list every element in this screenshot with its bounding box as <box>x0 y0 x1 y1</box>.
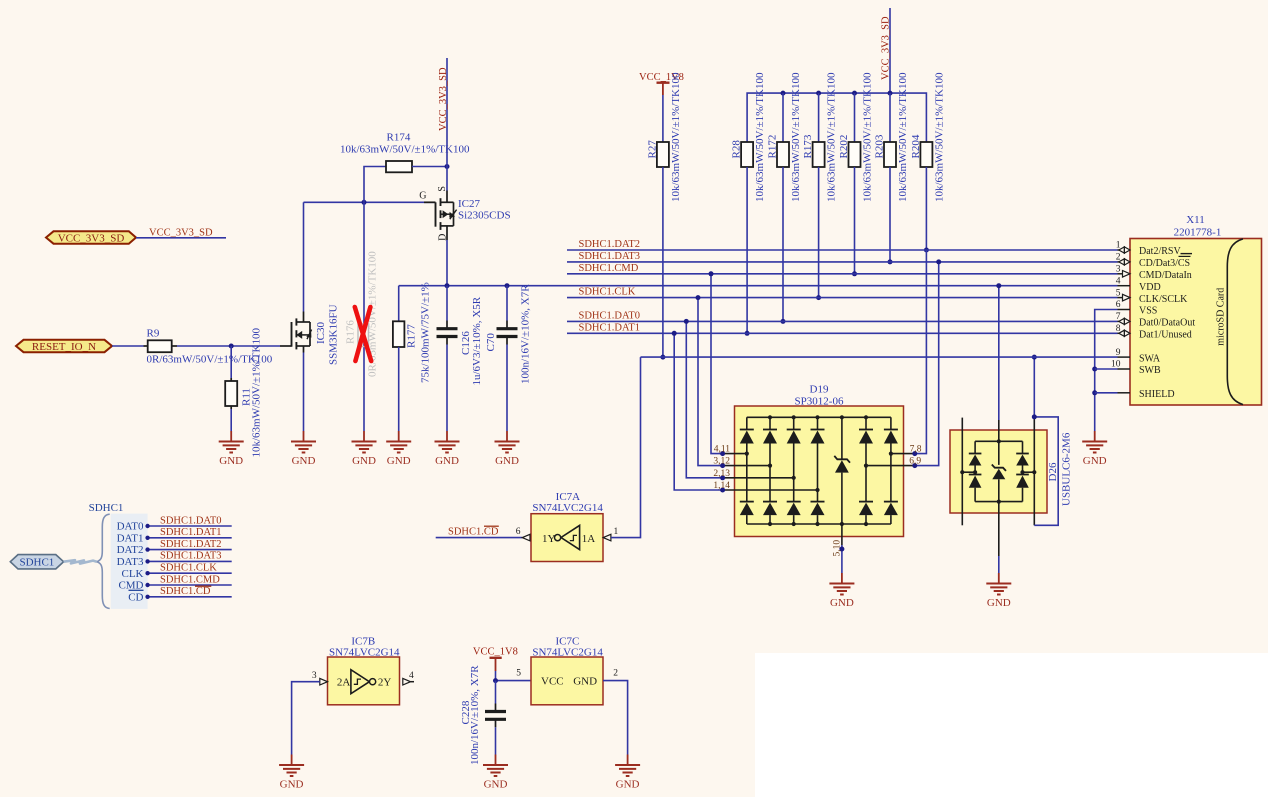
svg-text:R202: R202 <box>838 135 850 159</box>
junction rail/R202 <box>852 91 857 96</box>
wire D26 bypass loop <box>1034 417 1058 525</box>
svg-text:R204: R204 <box>910 134 922 158</box>
X11 pin 4 VDD <box>1116 276 1161 293</box>
svg-text:microSD Card: microSD Card <box>1216 288 1227 346</box>
svg-text:R203: R203 <box>873 134 885 158</box>
svg-text:SDHC1.DAT1: SDHC1.DAT1 <box>160 527 222 538</box>
ESD diode D26 USBULC6-2M6 body <box>950 430 1047 513</box>
svg-text:VDD: VDD <box>1139 282 1161 293</box>
resistor R177 <box>393 282 432 383</box>
svg-text:R27: R27 <box>646 140 658 159</box>
svg-text:2,13: 2,13 <box>713 469 730 479</box>
svg-text:1,14: 1,14 <box>713 481 730 491</box>
X11 pin SHIELD SHIELD <box>1118 389 1175 400</box>
net label SDHC1.DAT1 <box>160 527 222 538</box>
IC7B pin 3 <box>312 671 328 685</box>
svg-text:SDHC1: SDHC1 <box>89 502 124 514</box>
wire R172 top lead <box>782 93 784 142</box>
D19 top rail <box>747 416 891 418</box>
ground under X11 VSS <box>1082 431 1107 467</box>
wire R176 net to ground <box>363 202 365 431</box>
ground under R176 <box>352 431 377 467</box>
D19 lower diode column 6 <box>884 454 898 524</box>
junction SHIELD <box>1092 390 1097 395</box>
net label SDHC1.DAT0 <box>579 311 641 322</box>
svg-text:10k/63mW/50V/±1%/TK100: 10k/63mW/50V/±1%/TK100 <box>897 72 909 202</box>
wire pull-up rail <box>747 93 926 142</box>
ground under IC7C <box>615 755 640 791</box>
port RESET_IO_N <box>16 340 112 353</box>
junction R173/net <box>816 295 821 300</box>
D26 diode pair column <box>960 441 981 501</box>
wire R204 bottom lead <box>925 167 927 250</box>
wire R172 bottom lead <box>782 167 784 321</box>
svg-text:CD: CD <box>128 591 143 603</box>
svg-text:SSM3K16FU: SSM3K16FU <box>328 304 340 365</box>
wire R203 bottom lead <box>889 167 891 262</box>
svg-text:SDHC1.CMD: SDHC1.CMD <box>160 574 220 585</box>
svg-text:SP3012-06: SP3012-06 <box>795 395 844 407</box>
svg-text:Dat2/RSV: Dat2/RSV <box>1139 246 1181 257</box>
D19 bottom rail <box>747 523 891 525</box>
svg-text:100n/16V/±10%, X7R: 100n/16V/±10%, X7R <box>519 284 531 384</box>
svg-text:D26: D26 <box>1047 462 1059 481</box>
svg-text:5,10: 5,10 <box>833 540 843 557</box>
wire R27 to SWA net <box>662 167 664 357</box>
D19 rail junction <box>840 415 844 526</box>
capacitor C228 <box>460 665 506 765</box>
svg-text:SDHC1.CD: SDHC1.CD <box>448 527 499 538</box>
D19 upper diode column 3 <box>787 417 801 478</box>
power port VCC_3V3_SD <box>46 231 136 244</box>
svg-text:VCC_3V3_SD: VCC_3V3_SD <box>58 232 125 244</box>
svg-text:X11: X11 <box>1186 214 1205 226</box>
harness pin DAT0 <box>117 521 144 533</box>
svg-text:R9: R9 <box>147 327 160 339</box>
wire R11 riser <box>230 346 232 381</box>
svg-text:D: D <box>438 234 449 241</box>
svg-text:GND: GND <box>387 455 411 467</box>
net label SDHC1.DAT1 <box>579 322 641 333</box>
D19 pin 2,13 <box>713 469 795 481</box>
ground under R177 <box>386 431 411 467</box>
svg-text:2: 2 <box>613 669 618 679</box>
net label SDHC1.DAT2 <box>579 239 641 250</box>
power net VCC_3V3_SD vertical (left) <box>438 58 449 191</box>
gate power IC7C SN74LVC2G14 <box>531 636 603 705</box>
junction R28/net <box>745 331 750 336</box>
wire VCC_1V8 node <box>496 671 532 681</box>
net label SDHC1.CMD <box>579 263 639 274</box>
svg-text:GND: GND <box>987 597 1011 609</box>
wire IC30 drain riser <box>303 202 305 311</box>
wire VCC_3V3_SD stub <box>136 237 226 239</box>
power symbol VCC_1V8 (R27) <box>639 72 684 95</box>
wire C126 to ground <box>446 337 448 432</box>
D19 rail junction <box>815 415 819 526</box>
svg-text:S: S <box>437 186 448 192</box>
capacitor C70 <box>485 284 532 384</box>
svg-text:5: 5 <box>516 669 521 679</box>
D19 rail junction <box>768 415 772 526</box>
X11 pin 7 Dat0/DataOut <box>1116 312 1196 329</box>
svg-text:RESET_IO_N: RESET_IO_N <box>32 341 96 353</box>
net label SDHC1.CLK <box>579 287 636 298</box>
net label SDHC1.CD <box>160 586 211 597</box>
X11 pin 10 SWB <box>1111 360 1161 377</box>
svg-text:10k/63mW/50V/±1%/TK100: 10k/63mW/50V/±1%/TK100 <box>754 72 766 202</box>
wire IC27 drain to VDD net <box>446 240 448 286</box>
power net VCC_3V3_SD vertical (top right) <box>881 8 892 93</box>
net label SDHC1.CD overline <box>195 585 211 587</box>
D19 lower diode column 2 <box>763 466 777 524</box>
net label SDHC1.DAT2 <box>160 539 222 550</box>
transistor IC30 SSM3K16FU <box>280 304 340 365</box>
svg-text:SDHC1.CLK: SDHC1.CLK <box>579 287 636 298</box>
junction R174/VCC rail <box>445 164 450 169</box>
D19 lower diode column 3 <box>787 478 801 524</box>
ground under D26 <box>986 573 1011 609</box>
svg-text:GND: GND <box>495 455 519 467</box>
X11 pin1 RSV underscore mark <box>1181 253 1193 255</box>
svg-text:SDHC1.DAT3: SDHC1.DAT3 <box>579 251 641 262</box>
ground under IC30 <box>291 431 316 467</box>
svg-text:CLK/SCLK: CLK/SCLK <box>1139 294 1188 305</box>
D19 lower diode column 5 <box>859 466 873 524</box>
svg-text:VCC_3V3_SD: VCC_3V3_SD <box>881 16 892 80</box>
resistor R203 <box>873 72 909 202</box>
svg-text:USBULC6-2M6: USBULC6-2M6 <box>1060 432 1072 506</box>
net label SDHC1.CLK <box>160 563 217 574</box>
svg-text:GND: GND <box>484 779 508 791</box>
harness tag SDHC1 <box>10 555 63 569</box>
wire R28 bottom lead <box>746 167 748 333</box>
svg-text:5: 5 <box>1116 288 1121 298</box>
svg-text:GND: GND <box>616 779 640 791</box>
wire VCC_1V8 to R27 <box>662 95 664 142</box>
wire net SDHC1.CMD <box>567 273 1118 275</box>
wire C228 top lead <box>495 681 497 712</box>
harness bus squiggle <box>64 560 97 563</box>
IC7B pin 4 <box>403 671 414 685</box>
D26 top rail <box>975 420 1022 443</box>
svg-text:R177: R177 <box>406 324 418 348</box>
svg-text:GND: GND <box>830 597 854 609</box>
junction R202/net <box>852 271 857 276</box>
svg-text:DAT1: DAT1 <box>117 532 144 544</box>
junction VCC_1V8/C228 <box>493 678 498 683</box>
D19 upper diode column 4 <box>811 417 825 490</box>
IC7C pin 5 <box>516 669 521 679</box>
ground under R11 <box>219 431 244 467</box>
resistor R202 <box>838 72 874 202</box>
svg-text:SWB: SWB <box>1139 365 1161 376</box>
D19 rail junction <box>864 415 868 526</box>
svg-text:SDHC1.CD: SDHC1.CD <box>160 586 211 597</box>
D19 pin 3,12 <box>713 457 772 469</box>
svg-text:SWA: SWA <box>1139 353 1161 364</box>
wire R202 top lead <box>854 93 856 142</box>
D26 right pin line <box>1033 417 1035 525</box>
svg-text:CLK: CLK <box>122 568 144 580</box>
svg-text:1: 1 <box>1116 241 1121 251</box>
svg-text:SHIELD: SHIELD <box>1139 389 1175 400</box>
svg-text:DAT0: DAT0 <box>117 521 144 533</box>
junction rail/R173 <box>816 91 821 96</box>
net label SDHC1.DAT3 <box>160 551 222 562</box>
junction R172/net <box>781 319 786 324</box>
svg-text:Dat1/Unused: Dat1/Unused <box>1139 330 1192 341</box>
resistor R11 <box>225 328 262 458</box>
wire DAT0 riser to D19 pin 2,13 <box>686 321 722 477</box>
svg-text:SDHC1.DAT2: SDHC1.DAT2 <box>579 239 641 250</box>
wire SDHC1.CD <box>145 595 231 599</box>
D19 upper diode column 2 <box>763 417 777 465</box>
resistor R174 <box>340 132 470 173</box>
wire VDD to D26 top <box>998 286 1000 420</box>
wire SDHC1.DAT0 <box>145 524 231 528</box>
harness pin CMD <box>118 580 143 592</box>
svg-text:3: 3 <box>312 671 317 681</box>
svg-text:DAT3: DAT3 <box>117 556 144 568</box>
svg-text:9: 9 <box>1116 348 1121 358</box>
svg-text:CMD/DataIn: CMD/DataIn <box>1139 270 1192 281</box>
svg-text:2201778-1: 2201778-1 <box>1174 226 1222 238</box>
D19 upper diode column 6 <box>884 417 898 453</box>
svg-text:7,8: 7,8 <box>910 445 922 455</box>
harness pin DAT3 <box>117 556 144 568</box>
svg-text:SDHC1.CLK: SDHC1.CLK <box>160 563 217 574</box>
wire R177 to ground <box>398 347 400 431</box>
D19 upper diode column 1 <box>740 417 754 453</box>
junction D26 right pin <box>1032 414 1037 419</box>
svg-text:VSS: VSS <box>1139 306 1157 317</box>
wire CMD riser to D19 pin 4,11 <box>711 274 723 454</box>
inverter IC7A SN74LVC2G14 <box>531 491 603 562</box>
junction VDD/C70 <box>505 283 510 288</box>
wire C228 to ground <box>495 719 497 754</box>
svg-text:4: 4 <box>409 671 414 681</box>
wire D26 bottom to ground <box>998 502 1000 573</box>
harness pin DAT1 <box>117 532 144 544</box>
X11 pin 1 Dat2/RSV <box>1116 241 1182 258</box>
X11 pin2 CS overline <box>1179 255 1191 257</box>
svg-text:4: 4 <box>1116 276 1121 286</box>
svg-text:SDHC1.DAT0: SDHC1.DAT0 <box>579 311 641 322</box>
capacitor C126 <box>437 296 484 385</box>
D19 upper diode column 5 <box>859 417 873 465</box>
svg-text:10k/63mW/50V/±1%/TK100: 10k/63mW/50V/±1%/TK100 <box>826 72 838 202</box>
svg-text:SDHC1.DAT3: SDHC1.DAT3 <box>160 551 222 562</box>
X11 pin 2 CD/Dat3/CS <box>1116 253 1190 270</box>
wire net SDHC1.DAT2 <box>567 249 1118 251</box>
wire R174 left lead <box>364 167 386 203</box>
wire SDHC1.CD stub <box>436 537 523 539</box>
wire CLK riser to D19 pin 3,12 <box>698 298 723 466</box>
ground under IC7B <box>279 755 304 791</box>
svg-text:IC7A: IC7A <box>556 491 581 503</box>
svg-text:D19: D19 <box>810 384 829 396</box>
svg-text:100n/16V/±10%, X7R: 100n/16V/±10%, X7R <box>469 665 481 765</box>
wire C70 to ground <box>506 337 508 432</box>
net label SDHC1.CMD <box>160 574 220 585</box>
svg-text:1u/6V3/±10%, X5R: 1u/6V3/±10%, X5R <box>471 296 483 385</box>
svg-text:1A: 1A <box>582 533 596 545</box>
wire net SDHC1.DAT3 <box>567 261 1118 263</box>
svg-text:6,9: 6,9 <box>909 457 921 467</box>
D26 left pin line (n.c.) <box>961 418 963 526</box>
wire VSS to ground riser <box>1095 310 1118 432</box>
svg-text:3: 3 <box>1116 265 1121 275</box>
svg-text:SDHC1: SDHC1 <box>19 557 54 569</box>
ground under D19 <box>829 573 854 609</box>
wire VDD net horizontal <box>399 285 1118 287</box>
X11 pin 3 CMD/DataIn <box>1116 265 1192 282</box>
D26 diode pair column <box>1016 441 1036 501</box>
wire R9 to node <box>172 345 280 347</box>
svg-text:10k/63mW/50V/±1%/TK100: 10k/63mW/50V/±1%/TK100 <box>933 72 945 202</box>
X11 pin 8 Dat1/Unused <box>1116 324 1192 341</box>
svg-text:GND: GND <box>219 455 243 467</box>
svg-text:GND: GND <box>1083 455 1107 467</box>
svg-text:8: 8 <box>1116 324 1121 334</box>
resistor R9 <box>147 327 273 365</box>
svg-text:G: G <box>419 191 426 202</box>
harness pin CD <box>128 591 143 603</box>
ground under C228 <box>483 755 508 791</box>
net label VCC_3V3_SD <box>149 227 213 238</box>
IC7A pin 1 <box>603 527 618 541</box>
wire SDHC1.CMD <box>145 583 231 587</box>
ESD array D19 SP3012-06 body <box>735 384 904 537</box>
svg-text:SDHC1.DAT2: SDHC1.DAT2 <box>160 539 222 550</box>
svg-text:GND: GND <box>573 676 597 688</box>
harness pin CLK <box>122 568 144 580</box>
D19 pin 7,8 <box>889 445 922 457</box>
junction rail/R172 <box>781 91 786 96</box>
D19 zener diode <box>834 417 850 524</box>
svg-text:Si2305CDS: Si2305CDS <box>458 209 511 221</box>
X11 pin 5 CLK/SCLK <box>1116 288 1188 305</box>
junction node-A / R176 <box>362 200 367 205</box>
D19 rail junction <box>792 415 796 526</box>
svg-text:R173: R173 <box>802 134 814 158</box>
IC7C pin 2 wire to ground <box>603 669 628 755</box>
wire net SDHC1.CLK <box>567 297 1118 299</box>
harness pin DAT2 <box>117 544 144 556</box>
wire IC30 source to ground <box>303 353 305 432</box>
junction SWB <box>1092 367 1097 372</box>
svg-text:2: 2 <box>1116 253 1121 263</box>
wire SDHC1.DAT3 <box>145 559 231 563</box>
wire C70 top lead <box>506 286 508 329</box>
svg-text:GND: GND <box>435 455 459 467</box>
svg-text:SDHC1.DAT1: SDHC1.DAT1 <box>579 322 641 333</box>
svg-text:2A: 2A <box>337 677 351 689</box>
svg-text:1Y: 1Y <box>542 533 556 545</box>
svg-text:VCC_1V8: VCC_1V8 <box>473 646 518 657</box>
D19 pin 1,14 <box>713 481 819 493</box>
svg-text:VCC_3V3_SD: VCC_3V3_SD <box>438 67 449 131</box>
D19 lower diode column 1 <box>740 454 754 524</box>
wire node-A horizontal (IC30 drain - R174 - IC27 gate) <box>304 201 436 203</box>
transistor IC27 Si2305CDS (P-MOSFET) <box>419 186 510 241</box>
svg-text:CD/Dat3/CS: CD/Dat3/CS <box>1139 258 1190 269</box>
svg-text:SDHC1.DAT0: SDHC1.DAT0 <box>160 515 222 526</box>
wire DAT2/R204 riser to D19 pin 7,8 <box>915 250 927 454</box>
ground under C126 <box>435 431 460 467</box>
svg-text:R176: R176 <box>344 320 356 344</box>
svg-text:10k/63mW/50V/±1%/TK100: 10k/63mW/50V/±1%/TK100 <box>340 144 470 156</box>
svg-text:VCC_3V3_SD: VCC_3V3_SD <box>149 227 213 238</box>
svg-text:10k/63mW/50V/±1%/TK100: 10k/63mW/50V/±1%/TK100 <box>790 72 802 202</box>
power symbol VCC_1V8 (C228) <box>473 646 518 671</box>
svg-text:IC30: IC30 <box>315 322 327 345</box>
svg-text:4,11: 4,11 <box>714 445 731 455</box>
resistor R173 <box>802 72 838 202</box>
svg-text:7: 7 <box>1116 312 1121 322</box>
wire SWB stub <box>1095 368 1118 370</box>
wire DAT1 riser to D19 pin 1,14 <box>674 333 722 490</box>
svg-text:VCC: VCC <box>541 676 564 688</box>
wire R203 top lead <box>889 93 891 142</box>
svg-text:Dat0/DataOut: Dat0/DataOut <box>1139 318 1195 329</box>
D26 center zener <box>992 441 1006 501</box>
junction node R9/R11/IC30-gate <box>229 344 234 349</box>
D19 pin 5,10 to ground <box>833 524 845 573</box>
wire net SDHC1.DAT1 <box>567 332 1118 334</box>
net label SDHC1.DAT3 <box>579 251 641 262</box>
svg-text:SN74LVC2G14: SN74LVC2G14 <box>532 502 603 514</box>
ground under C70 <box>495 431 520 467</box>
svg-text:GND: GND <box>352 455 376 467</box>
wire RESET_IO_N to R9 <box>112 345 148 347</box>
svg-text:6: 6 <box>516 527 521 537</box>
wire C126 top lead <box>446 286 448 329</box>
X11 pin 6 VSS <box>1116 300 1158 317</box>
svg-text:IC27: IC27 <box>458 198 481 210</box>
wire SDHC1.DAT1 <box>145 536 231 540</box>
wire SWA net <box>641 356 1118 358</box>
junction R204/net <box>924 248 929 253</box>
resistor R172 <box>766 72 802 202</box>
resistor R27 <box>646 72 682 202</box>
svg-text:10k/63mW/50V/±1%/TK100: 10k/63mW/50V/±1%/TK100 <box>670 72 682 202</box>
wire R174 right lead <box>412 166 447 168</box>
junction R203/net <box>888 259 893 264</box>
IC7A pin 6 <box>516 527 530 541</box>
X11 microSD card outline <box>1216 239 1243 405</box>
svg-text:SDHC1.CMD: SDHC1.CMD <box>579 263 639 274</box>
wire net SDHC1.DAT0 <box>567 320 1118 322</box>
X11 pin 9 SWA <box>1116 348 1161 365</box>
svg-text:10k/63mW/50V/±1%/TK100: 10k/63mW/50V/±1%/TK100 <box>251 328 263 458</box>
resistor R28 <box>731 72 767 202</box>
svg-text:2Y: 2Y <box>378 677 392 689</box>
svg-text:3,12: 3,12 <box>713 457 730 467</box>
D19 lower diode column 4 <box>811 490 825 524</box>
ghost resistor R176 (deleted) <box>344 251 378 377</box>
wire R173 bottom lead <box>818 167 820 298</box>
harness SDHC1 panel <box>89 502 148 609</box>
wire DAT3 riser to D19 pin 6,9 <box>915 262 939 466</box>
resistor R204 <box>910 72 946 202</box>
wire IC7A input riser to SWA <box>611 357 641 537</box>
svg-text:1: 1 <box>614 527 619 537</box>
wire SDHC1.DAT2 <box>145 547 231 551</box>
net label SDHC1.DAT0 <box>160 515 222 526</box>
svg-text:R28: R28 <box>731 140 743 159</box>
